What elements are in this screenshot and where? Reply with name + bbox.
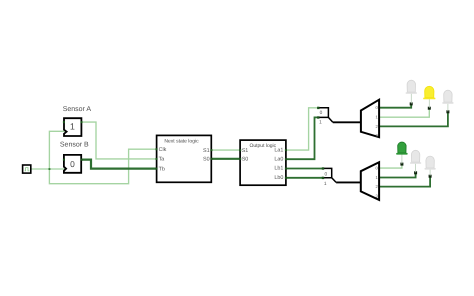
svg-text:La0: La0 (274, 156, 283, 162)
svg-text:S1: S1 (203, 148, 210, 154)
svg-text:1: 1 (70, 121, 75, 131)
svg-text:0: 0 (320, 110, 323, 116)
svg-text:Tb: Tb (159, 166, 165, 172)
svg-text:0: 0 (324, 171, 327, 177)
svg-text:S0: S0 (242, 157, 249, 163)
svg-text:Ta: Ta (159, 157, 165, 163)
svg-text:0: 0 (70, 159, 75, 169)
svg-text:Lb0: Lb0 (274, 175, 283, 181)
svg-text:La1: La1 (274, 147, 283, 153)
svg-text:1: 1 (324, 181, 327, 187)
svg-text:Next state logic: Next state logic (164, 138, 199, 144)
svg-text:Sensor B: Sensor B (60, 141, 89, 148)
svg-text:Output logic: Output logic (249, 143, 276, 149)
svg-text:Sensor A: Sensor A (63, 106, 92, 113)
svg-text:Lb1: Lb1 (274, 166, 283, 172)
svg-text:1: 1 (319, 119, 322, 125)
svg-text:Clk: Clk (159, 147, 167, 153)
svg-text:S1: S1 (242, 148, 249, 154)
svg-text:S0: S0 (203, 157, 210, 163)
